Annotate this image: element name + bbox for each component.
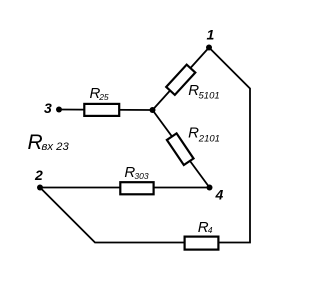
svg-text:2: 2 [34, 167, 43, 183]
svg-text:R: R [28, 131, 43, 154]
svg-text:303: 303 [134, 171, 148, 181]
svg-text:4: 4 [208, 225, 213, 235]
svg-text:3: 3 [44, 100, 52, 116]
svg-text:25: 25 [98, 92, 109, 102]
svg-text:4: 4 [215, 187, 224, 203]
svg-text:R: R [188, 125, 199, 142]
svg-text:2101: 2101 [198, 133, 220, 144]
svg-text:5101: 5101 [199, 91, 220, 102]
svg-text:вх 23: вх 23 [42, 141, 70, 153]
svg-text:1: 1 [207, 27, 215, 43]
